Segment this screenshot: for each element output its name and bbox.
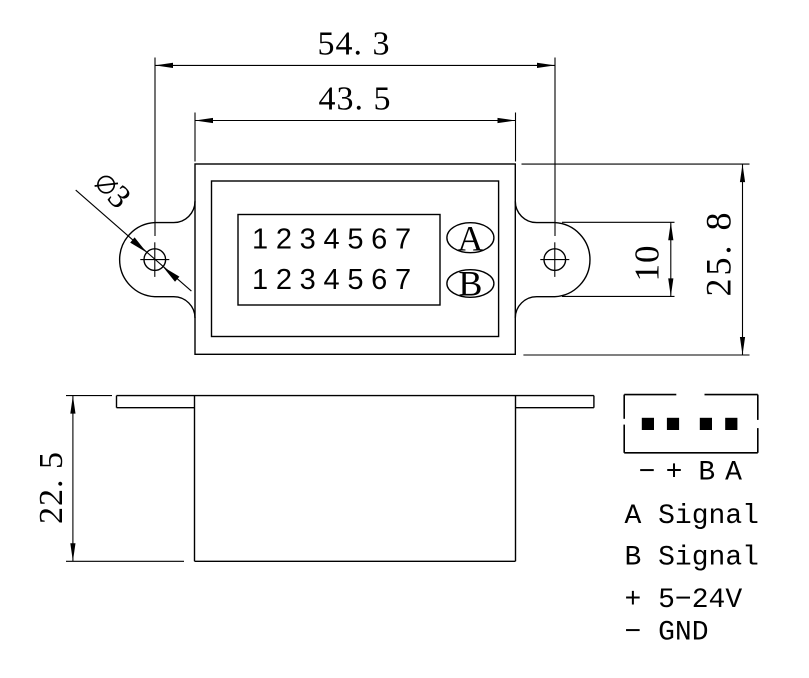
dim 10 extension lines — [562, 221, 675, 223]
svg-text:54. 3: 54. 3 — [318, 26, 391, 63]
svg-text:22. 5: 22. 5 — [33, 451, 70, 524]
left mounting ear — [120, 201, 195, 318]
display window — [238, 215, 440, 306]
arrow 43.5 right — [498, 118, 516, 123]
dim 22.5 extension lines — [66, 395, 112, 397]
dim 43.5 line — [195, 120, 516, 122]
svg-text:43. 5: 43. 5 — [319, 81, 392, 118]
arrow 43.5 left — [195, 118, 213, 123]
arrow 10 bottom — [668, 278, 673, 296]
arrow 25.8 bottom — [740, 337, 745, 355]
svg-text:A: A — [457, 218, 483, 258]
svg-text:− GND: − GND — [625, 618, 709, 649]
svg-text:10: 10 — [628, 245, 667, 282]
side body — [194, 396, 196, 562]
svg-text:1234567: 1234567 — [252, 224, 419, 256]
right hole center mark — [540, 259, 569, 261]
leader arrow lower — [163, 267, 180, 282]
diameter symbol phi slash — [95, 183, 118, 186]
arrow 10 top — [668, 222, 673, 240]
dim 25.8 extension lines — [522, 163, 750, 165]
diameter symbol phi circle — [98, 176, 114, 192]
svg-text:1234567: 1234567 — [252, 264, 419, 296]
arrow 54.3 left — [155, 63, 173, 68]
connector outline right — [757, 395, 759, 420]
dim 25.8 line — [742, 164, 744, 355]
dim 54.3 extension lines — [154, 58, 156, 237]
right ear hole — [544, 249, 566, 271]
svg-text:A Signal: A Signal — [625, 501, 759, 532]
diameter leader line — [76, 190, 192, 291]
arrow 22.5 bottom — [70, 543, 75, 561]
button ellipse B — [447, 270, 494, 298]
svg-text:−: − — [639, 458, 656, 489]
arrow 22.5 top — [70, 396, 75, 414]
dim 22.5 line — [72, 396, 74, 562]
flange left stub — [116, 396, 118, 408]
connector outline left — [623, 395, 625, 419]
right mounting ear — [515, 201, 590, 318]
svg-text:B Signal: B Signal — [625, 543, 759, 574]
pin 2 — [667, 418, 679, 430]
connector outline top — [624, 394, 676, 396]
svg-text:+: + — [666, 458, 683, 489]
dim 10 line — [670, 222, 672, 296]
svg-text:+ 5−24V: + 5−24V — [625, 585, 743, 616]
svg-text:A: A — [725, 458, 742, 489]
pin 3 — [700, 418, 712, 430]
svg-text:B: B — [698, 458, 715, 489]
button ellipse A — [447, 223, 494, 253]
leader arrow upper — [130, 237, 147, 252]
dim 43.5 extension lines — [194, 113, 196, 162]
left ear hole — [144, 249, 166, 271]
dim 54.3 line — [155, 64, 555, 66]
top view inner rim — [212, 181, 499, 337]
connector outline bottom — [624, 452, 758, 454]
pin 1 — [642, 418, 654, 430]
pin 4 — [725, 418, 737, 430]
arrow 25.8 top — [740, 164, 745, 182]
svg-text:25. 8: 25. 8 — [699, 210, 739, 297]
flange right stub — [593, 396, 595, 408]
svg-text:B: B — [458, 264, 482, 304]
arrow 54.3 right — [537, 63, 555, 68]
flange top edge — [117, 395, 594, 397]
top view outer body — [195, 164, 515, 354]
left hole center mark — [140, 259, 169, 261]
